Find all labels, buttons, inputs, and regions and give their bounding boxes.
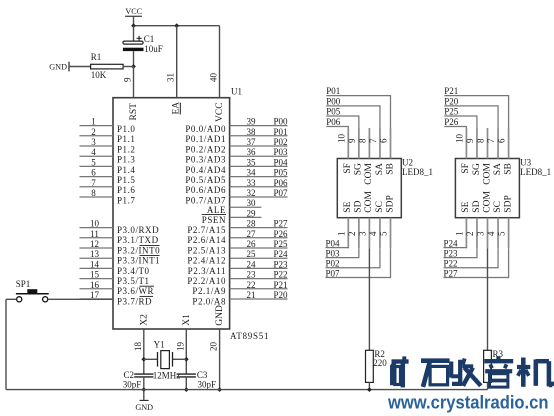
svg-text:5: 5	[497, 231, 507, 236]
svg-text:P3.7/RD: P3.7/RD	[117, 296, 152, 306]
wire pin 39 P0.0/AD0	[230, 125, 288, 127]
U3 bottom pin stub 5	[508, 218, 510, 249]
svg-text:PSEN: PSEN	[202, 215, 226, 225]
svg-text:P04: P04	[326, 238, 341, 248]
svg-text:VCC: VCC	[125, 7, 142, 16]
junction C3/bus	[184, 387, 189, 392]
svg-text:C1: C1	[144, 34, 155, 44]
svg-text:17: 17	[90, 290, 100, 300]
svg-text:RST: RST	[129, 103, 139, 121]
U3 top pin stub 10	[465, 128, 467, 159]
svg-text:GND: GND	[49, 63, 67, 72]
resistor R1 10K	[91, 64, 124, 69]
U3 top pin stub 7	[497, 128, 499, 159]
wire pin 8 P1.7	[80, 196, 114, 198]
svg-text:SC: SC	[375, 201, 385, 213]
svg-text:2: 2	[465, 232, 475, 237]
svg-text:GND: GND	[135, 403, 153, 412]
svg-text:SDP: SDP	[503, 195, 513, 212]
U3 bottom pin stub 4	[497, 218, 499, 249]
svg-text:P20: P20	[444, 97, 459, 107]
junction R2/bus	[367, 387, 372, 392]
wire P22 to U3	[444, 248, 499, 268]
svg-text:www.crystalradio.cn: www.crystalradio.cn	[387, 392, 548, 412]
svg-text:39: 39	[247, 117, 257, 127]
svg-text:P0.6/AD6: P0.6/AD6	[185, 185, 226, 195]
svg-text:P01: P01	[273, 127, 287, 137]
wire pin 15 P3.5/T1	[80, 278, 114, 280]
wire C3 to bus	[185, 377, 187, 390]
svg-text:P1.1: P1.1	[117, 134, 135, 144]
svg-text:P1.6: P1.6	[117, 185, 135, 195]
MCU U1 AT89S51 box	[113, 98, 230, 329]
U2 top pin stub 10	[347, 128, 349, 159]
wire P20 to U3	[444, 106, 498, 128]
wire pin 28 P2.7/A15	[230, 227, 288, 229]
wire pin 30 ALE	[230, 206, 262, 208]
wire R2 to bus	[368, 382, 370, 389]
svg-text:2: 2	[347, 232, 357, 237]
svg-text:P04: P04	[273, 157, 288, 167]
svg-text:31: 31	[166, 73, 176, 82]
U3 bottom pin stub 2	[476, 218, 478, 249]
U2 top pin stub 6	[390, 128, 392, 159]
svg-text:P21: P21	[444, 86, 458, 96]
wire P05 to U2	[326, 116, 359, 128]
wire P06 to U2	[326, 127, 348, 129]
svg-text:P03: P03	[273, 147, 288, 157]
wire pin 33 P0.6/AD6	[230, 186, 288, 188]
wire pin 36 P0.3/AD3	[230, 155, 288, 157]
U2 top pin stub 7	[379, 128, 381, 159]
svg-text:SE: SE	[461, 201, 471, 212]
svg-text:P3.4/T0: P3.4/T0	[117, 266, 150, 276]
wire pin 2 P1.1	[80, 135, 114, 137]
svg-text:9: 9	[347, 138, 357, 143]
U3 top pin stub 8	[487, 128, 489, 159]
wire pin 27 P2.6/A14	[230, 237, 288, 239]
svg-text:P3.5/T1: P3.5/T1	[117, 276, 150, 286]
wire crystal right lead	[173, 358, 187, 360]
wire rail to VCC pin	[219, 26, 221, 98]
svg-text:37: 37	[247, 137, 257, 147]
wire pin 38 P0.1/AD1	[230, 135, 288, 137]
wire R3 to bus	[487, 382, 489, 389]
svg-text:36: 36	[247, 147, 257, 157]
svg-text:ALE: ALE	[207, 205, 226, 215]
svg-text:P00: P00	[273, 117, 288, 127]
ground symbol GND	[143, 390, 145, 401]
wire pin 22 P2.1/A9	[230, 288, 288, 290]
U2 bottom pin stub 5	[390, 218, 392, 249]
svg-text:P23: P23	[444, 248, 459, 258]
svg-text:SDP: SDP	[385, 195, 395, 212]
svg-text:13: 13	[90, 249, 100, 259]
svg-text:30pF: 30pF	[123, 380, 142, 390]
wire pin 10 P3.0/RXD	[80, 227, 114, 229]
svg-text:SE: SE	[343, 201, 353, 212]
wire pin 12 P3.2/INT0	[80, 247, 114, 249]
svg-text:P27: P27	[444, 268, 459, 278]
wire P21 to U3	[444, 96, 508, 128]
svg-text:SA: SA	[375, 163, 385, 175]
svg-text:3: 3	[357, 231, 367, 236]
svg-text:5: 5	[91, 157, 96, 167]
svg-text:SA: SA	[493, 163, 503, 175]
svg-text:P1.4: P1.4	[117, 165, 135, 175]
svg-text:X2: X2	[139, 314, 149, 326]
wire ground bus	[6, 389, 488, 391]
U2 top pin stub 8	[368, 128, 370, 159]
wire X1 pin down	[185, 329, 187, 374]
junction X1/crystal	[184, 357, 189, 362]
wire P25 to U3	[444, 116, 477, 128]
svg-text:16: 16	[90, 280, 100, 290]
svg-text:P01: P01	[326, 86, 340, 96]
svg-text:P22: P22	[273, 270, 287, 280]
wire P23 to U3	[444, 248, 477, 257]
svg-text:P07: P07	[273, 188, 288, 198]
svg-text:U2: U2	[402, 157, 413, 167]
svg-text:P1.0: P1.0	[117, 124, 135, 134]
wire R1 to junction	[123, 66, 133, 68]
overline RD	[140, 295, 154, 297]
svg-text:U3: U3	[520, 157, 531, 167]
svg-text:6: 6	[497, 138, 507, 143]
svg-text:P1.5: P1.5	[117, 175, 135, 185]
svg-text:1: 1	[454, 232, 464, 237]
U2 bottom pin stub 3	[368, 218, 370, 249]
crystal Y1 12MHz	[157, 352, 159, 367]
wire pin 37 P0.2/AD2	[230, 145, 288, 147]
svg-text:8: 8	[357, 138, 367, 143]
svg-text:P22: P22	[444, 259, 458, 269]
svg-text:27: 27	[247, 229, 257, 239]
junction VCC/C1	[131, 23, 136, 28]
wire C2 to bus	[143, 377, 145, 390]
wire pin 34 P0.5/AD5	[230, 176, 288, 178]
svg-text:P2.3/A11: P2.3/A11	[188, 266, 226, 276]
wire VCC rail	[134, 25, 220, 27]
svg-text:40: 40	[209, 73, 219, 83]
junction X2/crystal	[141, 357, 146, 362]
wire pin 17 P3.7/RD	[80, 298, 114, 300]
svg-text:SC: SC	[493, 201, 503, 213]
svg-text:LED8_1: LED8_1	[402, 167, 433, 177]
svg-text:9: 9	[123, 77, 133, 82]
LED display U3 LED8_1	[455, 159, 519, 218]
svg-text:11: 11	[90, 229, 99, 239]
svg-text:P2.4/A12: P2.4/A12	[187, 256, 226, 266]
svg-text:P26: P26	[273, 229, 288, 239]
svg-text:30: 30	[247, 198, 257, 208]
junction GND pin/bus	[217, 387, 222, 392]
svg-text:R1: R1	[91, 52, 102, 62]
svg-text:P0.2/AD2: P0.2/AD2	[185, 144, 226, 154]
svg-text:4: 4	[368, 231, 378, 236]
svg-text:P2.1/A9: P2.1/A9	[192, 286, 226, 296]
overline INT1	[140, 255, 160, 257]
resistor R2 220	[366, 350, 374, 382]
U3 top pin stub 9	[476, 128, 478, 159]
svg-text:P2.2/A10: P2.2/A10	[187, 276, 226, 286]
capacitor C3 30pF	[177, 373, 196, 375]
wire pin 21 P2.0/A8	[230, 298, 288, 300]
svg-text:P05: P05	[326, 107, 341, 117]
overline INT0	[140, 244, 160, 246]
watermark logo (decorative)	[392, 359, 403, 363]
wire P07 to U2	[326, 248, 391, 277]
wire pin 1 P1.0	[80, 125, 114, 127]
U3 bottom pin stub 3	[487, 218, 489, 249]
svg-text:24: 24	[247, 259, 257, 269]
svg-text:10: 10	[336, 134, 346, 144]
svg-text:SD: SD	[472, 200, 482, 212]
svg-text:P00: P00	[326, 97, 341, 107]
wire U2 COM down to R2	[368, 248, 370, 350]
svg-text:P3.1/TXD: P3.1/TXD	[117, 235, 159, 245]
svg-text:P3.2/INT0: P3.2/INT0	[117, 245, 160, 255]
U2 bottom pin stub 1	[347, 218, 349, 249]
wire pin 25 P2.4/A12	[230, 257, 288, 259]
svg-text:SB: SB	[503, 163, 513, 175]
svg-text:P07: P07	[326, 268, 341, 278]
svg-text:P1.7: P1.7	[117, 195, 135, 205]
svg-text:3: 3	[91, 137, 96, 147]
svg-text:15: 15	[90, 270, 100, 280]
svg-text:P27: P27	[273, 219, 288, 229]
wire GND pin 20 to bus	[219, 329, 221, 390]
svg-text:6: 6	[91, 168, 96, 178]
svg-text:SF: SF	[343, 163, 353, 174]
svg-text:P3.6/WR: P3.6/WR	[117, 286, 154, 296]
svg-text:7: 7	[91, 178, 96, 188]
svg-text:8: 8	[476, 138, 486, 143]
wire P02 to U2	[326, 248, 380, 268]
svg-text:SD: SD	[354, 200, 364, 212]
svg-text:SB: SB	[385, 163, 395, 175]
overline for EA	[179, 103, 181, 115]
svg-text:P03: P03	[326, 248, 341, 258]
wire pin 6 P1.5	[80, 176, 114, 178]
svg-text:10: 10	[90, 219, 100, 229]
svg-text:LED8_1: LED8_1	[520, 167, 551, 177]
junction C1/R1/RST	[131, 64, 136, 69]
svg-text:C3: C3	[197, 370, 208, 380]
wire P00 to U2	[326, 106, 380, 128]
svg-text:SP1: SP1	[16, 279, 31, 289]
svg-text:P1.2: P1.2	[117, 144, 135, 154]
svg-text:COM: COM	[482, 163, 492, 185]
svg-text:P20: P20	[273, 290, 288, 300]
wire pin 11 P3.1/TXD	[80, 237, 114, 239]
svg-text:P26: P26	[444, 117, 459, 127]
svg-text:8: 8	[91, 188, 96, 198]
svg-text:23: 23	[247, 270, 257, 280]
svg-text:C2: C2	[124, 370, 135, 380]
svg-text:32: 32	[247, 188, 256, 198]
wire crystal left lead	[144, 358, 158, 360]
wire U3 COM down to R3	[487, 248, 489, 350]
svg-text:P2.0/A8: P2.0/A8	[192, 296, 226, 306]
svg-text:2: 2	[91, 127, 96, 137]
wire P01 to U2	[326, 96, 390, 128]
svg-text:7: 7	[368, 138, 378, 143]
wire pin 35 P0.4/AD4	[230, 165, 288, 167]
svg-text:P3.3/INT1: P3.3/INT1	[117, 256, 160, 266]
wire P26 to U3	[444, 127, 466, 129]
svg-text:29: 29	[247, 208, 257, 218]
svg-text:3: 3	[476, 231, 486, 236]
svg-text:5: 5	[379, 231, 389, 236]
svg-text:GND: GND	[215, 305, 225, 326]
svg-text:SG: SG	[472, 163, 482, 175]
svg-text:COM: COM	[364, 163, 374, 185]
svg-text:4: 4	[486, 231, 496, 236]
svg-text:P0.3/AD3: P0.3/AD3	[185, 155, 226, 165]
wire GND to R1	[69, 66, 91, 68]
overline PSEN	[202, 214, 226, 216]
wire SP1 left lead	[6, 298, 16, 300]
svg-text:P2.5/A13: P2.5/A13	[187, 245, 226, 255]
wire pin 5 P1.4	[80, 165, 114, 167]
svg-text:38: 38	[247, 127, 257, 137]
svg-text:12MHz: 12MHz	[153, 371, 181, 381]
U3 top pin stub 6	[508, 128, 510, 159]
svg-text:34: 34	[247, 168, 257, 178]
svg-text:10K: 10K	[91, 70, 107, 80]
svg-text:7: 7	[486, 138, 496, 143]
svg-text:P25: P25	[273, 239, 288, 249]
svg-text:P24: P24	[273, 249, 288, 259]
svg-text:P2.7/A15: P2.7/A15	[187, 225, 226, 235]
svg-text:P0.5/AD5: P0.5/AD5	[185, 175, 226, 185]
svg-text:220: 220	[373, 358, 387, 368]
wire pin 14 P3.4/T0	[80, 267, 114, 269]
wire SP1 to ground bus	[5, 299, 7, 389]
wire pin 23 P2.2/A10	[230, 278, 288, 280]
wire C1 to R1 junction	[133, 51, 135, 66]
U2 top pin stub 9	[358, 128, 360, 159]
wire pin 16 P3.6/WR	[80, 288, 114, 290]
svg-text:P06: P06	[273, 178, 288, 188]
junction C2/bus	[141, 387, 146, 392]
svg-text:P24: P24	[444, 238, 459, 248]
overline WR	[140, 285, 155, 287]
svg-text:21: 21	[247, 290, 256, 300]
svg-text:COM: COM	[482, 191, 492, 213]
svg-text:P2.6/A14: P2.6/A14	[187, 235, 226, 245]
wire pin 3 P1.2	[80, 145, 114, 147]
svg-text:22: 22	[247, 280, 256, 290]
svg-text:6: 6	[379, 138, 389, 143]
capacitor C2 30pF	[134, 373, 153, 375]
svg-text:X1: X1	[182, 314, 192, 326]
svg-text:P06: P06	[326, 117, 341, 127]
svg-text:20: 20	[209, 342, 219, 352]
svg-text:P21: P21	[273, 280, 287, 290]
wire rail to C1	[133, 26, 135, 41]
svg-text:P1.3: P1.3	[117, 155, 135, 165]
svg-text:30pF: 30pF	[198, 380, 217, 390]
svg-text:VCC: VCC	[215, 102, 225, 122]
wire SP1 to P3.7 pin 17	[48, 298, 113, 300]
svg-text:26: 26	[247, 239, 257, 249]
wire pin 29 PSEN	[230, 216, 262, 218]
resistor R3 220	[484, 350, 492, 382]
svg-text:10: 10	[454, 134, 464, 144]
svg-text:COM: COM	[364, 191, 374, 213]
svg-text:P02: P02	[326, 259, 340, 269]
svg-text:12: 12	[90, 239, 99, 249]
svg-text:1: 1	[336, 232, 346, 237]
U2 bottom pin stub 4	[379, 218, 381, 249]
svg-text:Y1: Y1	[154, 340, 165, 350]
wire junction to RST pin	[133, 67, 135, 98]
svg-text:4: 4	[91, 147, 96, 157]
capacitor C1 10uF (electrolytic)	[123, 41, 143, 44]
wire pin 13 P3.3/INT1	[80, 257, 114, 259]
svg-text:AT89S51: AT89S51	[230, 331, 269, 341]
svg-text:SF: SF	[461, 163, 471, 174]
svg-text:35: 35	[247, 157, 257, 167]
svg-text:28: 28	[247, 219, 257, 229]
svg-text:P02: P02	[273, 137, 287, 147]
svg-text:25: 25	[247, 249, 257, 259]
wire P04 to U2	[326, 247, 349, 250]
U3 bottom pin stub 1	[465, 218, 467, 249]
svg-text:19: 19	[175, 342, 185, 352]
svg-text:P0.0/AD0: P0.0/AD0	[185, 124, 226, 134]
svg-text:14: 14	[90, 259, 100, 269]
svg-text:18: 18	[133, 342, 143, 352]
LED display U2 LED8_1	[337, 159, 401, 218]
svg-text:10uF: 10uF	[144, 44, 163, 54]
svg-text:9: 9	[465, 138, 475, 143]
svg-text:1: 1	[91, 117, 96, 127]
svg-text:P3.0/RXD: P3.0/RXD	[117, 225, 159, 235]
svg-text:P23: P23	[273, 259, 288, 269]
svg-text:U1: U1	[231, 87, 242, 97]
wire pin 24 P2.3/A11	[230, 267, 288, 269]
wire rail to EA pin	[176, 26, 178, 98]
svg-text:P0.4/AD4: P0.4/AD4	[185, 165, 226, 175]
svg-text:33: 33	[247, 178, 257, 188]
wire P27 to U3	[444, 248, 509, 277]
svg-text:SG: SG	[354, 163, 364, 175]
wire P03 to U2	[326, 248, 359, 257]
U2 bottom pin stub 2	[358, 218, 360, 249]
wire pin 26 P2.5/A13	[230, 247, 288, 249]
junction rail/EA	[174, 23, 179, 28]
svg-text:P05: P05	[273, 168, 288, 178]
wire X2 pin down	[143, 329, 145, 374]
svg-text:P0.1/AD1: P0.1/AD1	[185, 134, 226, 144]
wire pin 32 P0.7/AD7	[230, 196, 288, 198]
wire pin 7 P1.6	[80, 186, 114, 188]
wire P24 to U3	[444, 247, 467, 250]
svg-text:P25: P25	[444, 107, 459, 117]
wire pin 4 P1.3	[80, 155, 114, 157]
